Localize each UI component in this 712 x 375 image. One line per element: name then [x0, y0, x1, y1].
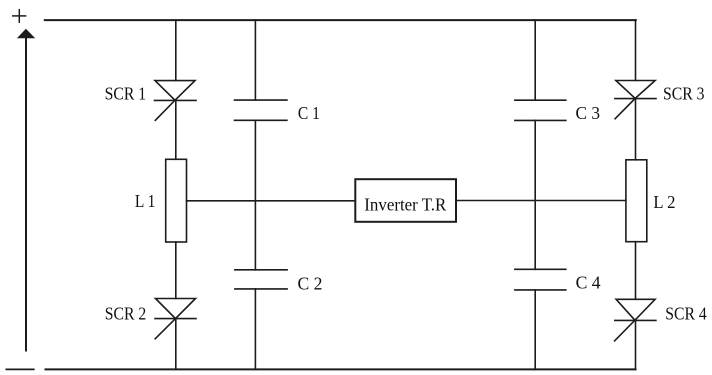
plus terminal label: [13, 10, 26, 23]
capacitor C3: [515, 100, 566, 120]
wire: SCR4 to bottom rail: [635, 320, 637, 369]
top rail wire: [45, 19, 636, 21]
svg-text:SCR 4: SCR 4: [665, 304, 707, 324]
wire: C3 to C4: [534, 120, 536, 269]
svg-text:C 2: C 2: [298, 273, 323, 293]
wire: inverter box to L2: [456, 200, 626, 202]
svg-text:SCR 2: SCR 2: [105, 303, 147, 323]
wire: top rail to C1: [254, 20, 256, 100]
inverter box U1: [355, 179, 456, 222]
thyristor SCR3: [615, 81, 656, 119]
svg-text:Inverter T.R: Inverter T.R: [364, 194, 446, 214]
wire: SCR1 to L1: [175, 100, 177, 159]
wire: top rail to C3: [534, 20, 536, 100]
svg-text:SCR 1: SCR 1: [105, 83, 147, 103]
bottom rail wire: [46, 368, 636, 370]
minus terminal label: [6, 368, 33, 370]
wire: L2 to SCR4: [635, 242, 637, 300]
svg-text:L 2: L 2: [653, 192, 675, 212]
wire: C4 to bottom rail: [534, 290, 536, 370]
wire: top rail to SCR1: [175, 20, 177, 81]
DC source arrow: [17, 29, 35, 351]
wire: top rail to SCR3: [635, 20, 637, 80]
svg-text:L 1: L 1: [135, 191, 156, 211]
capacitor C2: [235, 270, 287, 289]
inductor L2: [626, 160, 647, 242]
svg-text:C 4: C 4: [576, 273, 601, 293]
thyristor SCR4: [615, 299, 656, 341]
capacitor C1: [235, 100, 287, 120]
svg-text:C 1: C 1: [298, 103, 320, 123]
wire: L1 to SCR2: [175, 242, 177, 299]
wire: C2 to bottom rail: [254, 289, 256, 370]
thyristor SCR1: [155, 81, 197, 121]
capacitor C4: [515, 269, 566, 290]
svg-text:C 3: C 3: [576, 103, 601, 123]
inductor L1: [166, 159, 187, 242]
wire: L1 to inverter box: [187, 200, 356, 202]
wire: C1 to C2: [254, 120, 256, 269]
wire: SCR3 to L2: [635, 99, 637, 160]
wire: SCR2 to bottom rail: [175, 319, 177, 370]
thyristor SCR2: [155, 299, 196, 339]
svg-text:SCR 3: SCR 3: [663, 83, 705, 103]
